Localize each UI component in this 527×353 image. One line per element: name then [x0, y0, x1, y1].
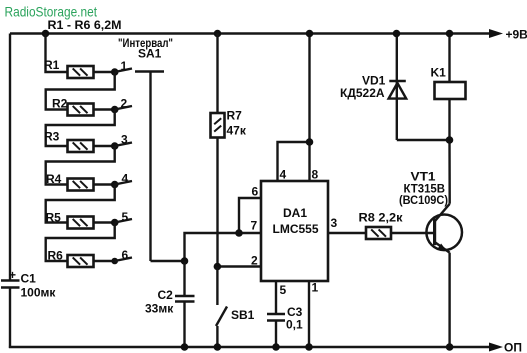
SA1 contact 1 — [115, 59, 132, 73]
wire top +9V rail — [10, 32, 496, 34]
node pin1 ground — [305, 343, 313, 351]
wire top rail to K1 — [448, 34, 450, 83]
wire top rail to R7 — [216, 34, 218, 114]
svg-text:3: 3 — [121, 133, 128, 147]
node contact 4 — [111, 181, 119, 189]
svg-text:SB1: SB1 — [231, 308, 255, 322]
svg-text:2: 2 — [121, 97, 128, 111]
SA1 contact 2 — [115, 97, 132, 111]
relay K1 — [431, 66, 466, 100]
node contact 2 — [111, 106, 119, 114]
wire pin 4 — [278, 142, 310, 182]
node top rail pin 8 — [306, 30, 314, 38]
wire SA1 pole to C2 node — [151, 260, 185, 262]
node pin6/pin7 — [235, 229, 243, 237]
wire pin 7 — [185, 219, 262, 262]
svg-text:5: 5 — [280, 283, 287, 297]
capacitor C2 — [145, 261, 195, 347]
resistor R1 — [44, 58, 115, 78]
wire R4 to R5 — [46, 185, 115, 223]
svg-text:SA1: SA1 — [138, 47, 162, 61]
svg-text:R8 2,2к: R8 2,2к — [359, 211, 404, 225]
svg-text:R5: R5 — [46, 211, 62, 225]
SA1 contact 5 — [115, 210, 132, 224]
arrow +9V — [489, 28, 527, 42]
node R7 top — [214, 30, 222, 38]
node contact 6 — [111, 258, 118, 265]
SA1 contact 3 — [115, 133, 132, 147]
resistor R2 — [52, 97, 115, 116]
svg-text:1: 1 — [121, 59, 128, 73]
svg-text:ОП: ОП — [504, 341, 522, 353]
watermark RadioStorage.net — [5, 4, 98, 20]
wire emitter to ground — [448, 253, 450, 347]
svg-text:R2: R2 — [52, 97, 68, 111]
node pin4/pin8 — [306, 138, 314, 146]
svg-text:DA1: DA1 — [283, 206, 307, 220]
wire pin 6 — [239, 185, 261, 234]
node contact 3 — [111, 142, 119, 150]
svg-text:+: + — [9, 268, 16, 282]
wire pin 2 — [217, 254, 261, 268]
arrow 0V — [489, 341, 522, 353]
svg-text:4: 4 — [280, 168, 287, 182]
wire R2 to R3 — [46, 110, 115, 147]
node K1 bottom — [446, 136, 454, 144]
wire pin 5 — [276, 281, 287, 314]
wire left rail lower — [9, 288, 11, 349]
wire collector to K1 — [448, 99, 451, 204]
transistor VT1 — [399, 170, 462, 253]
wire R7 to pin2 node — [216, 138, 218, 267]
svg-text:4: 4 — [122, 172, 129, 186]
resistor R5 — [46, 211, 115, 229]
switch SB1 — [216, 267, 255, 348]
svg-text:0,1: 0,1 — [286, 318, 303, 332]
resistor R3 — [44, 130, 115, 153]
resistor R8 — [359, 211, 404, 240]
node top-left bus — [42, 30, 50, 38]
svg-text:8: 8 — [312, 168, 319, 182]
node pin2/R7/SB1 — [214, 263, 222, 271]
svg-text:LMC555: LMC555 — [273, 222, 319, 236]
wire left rail upper — [9, 34, 11, 281]
svg-text:100мк: 100мк — [21, 286, 57, 300]
diode VD1 — [340, 34, 406, 141]
capacitor C3 — [267, 305, 303, 347]
svg-text:1: 1 — [312, 281, 319, 295]
SA1 contact 4 — [115, 172, 132, 186]
wire R8 to base — [391, 232, 434, 234]
wire pin 3 — [328, 216, 366, 233]
wire bus to R1 — [46, 34, 68, 73]
svg-text:5: 5 — [122, 210, 129, 224]
svg-text:6: 6 — [252, 185, 259, 199]
SA1 contact 6 — [115, 248, 132, 262]
wire R3 to R4 — [46, 146, 115, 185]
svg-text:+9В: +9В — [506, 28, 527, 42]
svg-text:R4: R4 — [46, 172, 62, 186]
svg-text:47к: 47к — [227, 124, 247, 138]
wire bottom rail — [9, 346, 496, 348]
resistor R7 — [211, 109, 247, 138]
svg-text:6: 6 — [122, 248, 129, 262]
node SB1 ground — [214, 343, 222, 351]
node emitter ground — [446, 343, 454, 351]
resistor R4 — [46, 172, 115, 191]
label R1 - R6 6,2M — [48, 18, 122, 32]
IC op-amp/timer DA1 — [261, 181, 328, 281]
node top rail K1 — [446, 30, 454, 38]
svg-text:33мк: 33мк — [145, 302, 174, 316]
node contact 5 — [111, 219, 119, 227]
svg-text:(ВС109С): (ВС109С) — [399, 193, 448, 207]
node top rail VD1 — [393, 30, 401, 38]
svg-text:2: 2 — [251, 254, 258, 268]
svg-text:R7: R7 — [227, 109, 243, 123]
wire pin 1 — [309, 281, 319, 348]
capacitor C1 — [1, 268, 56, 300]
svg-text:3: 3 — [331, 216, 338, 230]
node C3 ground — [272, 343, 280, 351]
wire R5 to R6 — [46, 223, 115, 262]
node contact 1 — [111, 68, 119, 76]
svg-text:C2: C2 — [158, 288, 174, 302]
wire pin 8 — [310, 34, 319, 182]
svg-text:R6: R6 — [48, 249, 64, 263]
svg-text:КД522А: КД522А — [340, 86, 385, 100]
svg-text:K1: K1 — [431, 66, 447, 80]
svg-text:7: 7 — [251, 219, 258, 233]
switch SA1 pole — [135, 72, 164, 262]
svg-text:R1 - R6 6,2М: R1 - R6 6,2М — [48, 18, 122, 32]
svg-text:R1: R1 — [44, 58, 60, 72]
resistor R6 — [48, 249, 115, 268]
wire VD1 to K1 bottom — [397, 139, 450, 141]
wire R1 to R2 — [46, 72, 115, 110]
switch SA1 label — [118, 36, 173, 61]
node SA1/C2/pin7 — [181, 257, 189, 265]
svg-text:R3: R3 — [44, 130, 60, 144]
svg-text:C1: C1 — [21, 272, 37, 286]
node C2 ground — [181, 343, 189, 351]
